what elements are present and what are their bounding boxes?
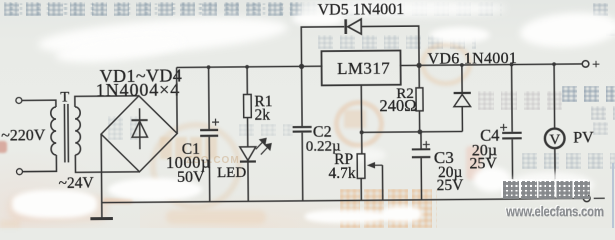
svg-text:2k: 2k xyxy=(254,106,270,123)
svg-text:4.7k: 4.7k xyxy=(328,165,356,182)
transformer T primary winding xyxy=(22,100,56,171)
svg-text:+: + xyxy=(592,58,600,73)
faded text top-right corner xyxy=(593,3,615,16)
svg-text:LED: LED xyxy=(217,165,246,181)
blue line right edge xyxy=(612,163,614,228)
capacitor C1 electrolytic xyxy=(200,67,220,202)
wire: top positive rail xyxy=(177,66,323,67)
node: C4 top junction xyxy=(510,63,514,67)
faded row right side lower xyxy=(522,153,615,169)
bridge rectifier VD1~VD4 diamond xyxy=(101,95,178,172)
node: ADJ junction xyxy=(360,130,364,134)
svg-text:25V: 25V xyxy=(469,155,497,172)
ground symbol xyxy=(90,217,112,220)
transformer T secondary winding xyxy=(75,107,81,155)
faded row right of VD5 xyxy=(318,35,476,49)
tan watermark stamp: top right of LM317 xyxy=(420,42,472,86)
faded bleed-through chinese text: top row xyxy=(4,2,302,16)
svg-text:1N4004×4: 1N4004×4 xyxy=(96,79,181,100)
wire: LM317 ADJ pin down xyxy=(360,85,363,154)
svg-text:25V: 25V xyxy=(437,177,465,194)
svg-text:LM317: LM317 xyxy=(337,59,390,78)
voltmeter PV xyxy=(544,64,565,199)
node: C2/VD5 junction xyxy=(299,64,304,69)
node: VD6 top junction xyxy=(460,63,464,67)
elecfans watermark logo xyxy=(503,181,592,199)
node: C1 top junction xyxy=(207,65,211,69)
bridge internal diode symbol xyxy=(131,108,148,149)
faint marks near bridge xyxy=(108,116,138,140)
svg-text:VD6 1N4001: VD6 1N4001 xyxy=(427,50,517,68)
red mark left edge xyxy=(0,141,7,153)
pink marks right of C3 xyxy=(466,146,482,180)
capacitor C3 electrolytic xyxy=(412,132,431,200)
svg-text:~220V: ~220V xyxy=(1,127,46,144)
bottom tan streaks xyxy=(166,210,266,224)
faded text right band y20 xyxy=(540,21,615,36)
capacitor C4 electrolytic xyxy=(500,64,523,199)
svg-text:PV: PV xyxy=(573,129,594,146)
LED diode xyxy=(240,138,272,201)
wire: bridge right vertex up to + rail xyxy=(176,67,179,133)
transformer core xyxy=(63,104,66,162)
node: R1 top junction xyxy=(245,65,249,69)
faint bleed row left of PV xyxy=(478,91,562,110)
white erased patches xyxy=(37,11,289,60)
wire: secondary bottom to bridge bottom vertex xyxy=(75,154,139,172)
wire: bottom ground rail xyxy=(102,198,584,202)
wire: bridge left vertex down to ground xyxy=(100,134,103,218)
svg-text:V: V xyxy=(549,132,560,148)
capacitor C2 xyxy=(292,66,312,201)
faint column right edge xyxy=(591,106,615,120)
tan watermark stamp: LM317 area xyxy=(334,100,384,148)
tan watermark stamp: circle near bridge/C1 xyxy=(150,122,242,210)
svg-text:T: T xyxy=(60,89,69,105)
node: VD5/R2 junction on output rail xyxy=(416,63,421,68)
regulator U1 LM317 xyxy=(321,51,400,86)
svg-text:~24V: ~24V xyxy=(59,175,95,192)
resistor R1 xyxy=(243,67,251,147)
terminal output + xyxy=(582,61,589,68)
potentiometer RP xyxy=(357,154,383,201)
wire: secondary top to bridge top vertex xyxy=(75,96,139,107)
svg-text:50V: 50V xyxy=(177,169,205,186)
terminal output - xyxy=(583,195,590,202)
faint row between R1 and C2 xyxy=(239,124,293,136)
diode VD6 xyxy=(453,65,471,132)
resistor R2 xyxy=(416,65,423,132)
wire: ADJ horizontal line xyxy=(362,130,463,133)
node: R2/C3 junction xyxy=(418,129,423,134)
faded row right side mid xyxy=(562,86,615,102)
diode VD5 bypass loop xyxy=(301,19,419,67)
white glow under logo xyxy=(508,172,594,198)
terminal circle AC bottom xyxy=(16,169,22,175)
terminal circle AC top xyxy=(16,97,22,103)
svg-text:240Ω: 240Ω xyxy=(379,96,416,115)
svg-text:VD5 1N4001: VD5 1N4001 xyxy=(318,1,405,19)
node: PV top junction xyxy=(552,62,556,66)
